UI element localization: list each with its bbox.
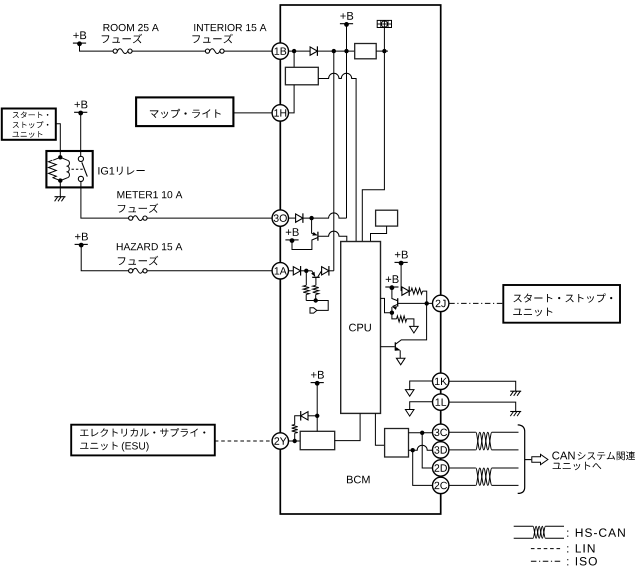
wire [293,51,295,67]
bracket (CAN group) [518,425,532,494]
map light box [136,97,233,126]
start-stop unit box [2,109,56,140]
wire [346,24,348,51]
label METER1 10 A [117,191,182,198]
connector 3C [433,424,449,440]
power +B (Q3 collector) [385,275,398,290]
wire [449,449,476,451]
start-stop unit box (right) [503,285,620,323]
label METER1 fuse (jp) [118,203,158,213]
fuse INTERIOR 15 A [205,49,224,54]
node (CAN-H) [420,431,424,435]
wire [492,467,519,469]
relay IG1 contact link (dashed) [72,168,85,170]
wire [147,270,272,272]
fuse ROOM 25 A [113,49,132,54]
ground (1K internal) [405,390,414,397]
wire (hop over rail) [303,213,347,218]
transistor Q4 [395,303,426,358]
connector 3O [272,210,288,226]
label CAN system (jp) [552,451,635,460]
label ROOM 25 A [104,24,159,31]
wire [329,270,334,272]
power +B (1B internal) [340,12,353,27]
resistor R1 [303,271,309,301]
transistor Q3 (2J) [392,288,398,313]
power +B (2Y clamp) [311,371,324,386]
wire [308,415,317,417]
diode D1 [310,46,317,56]
fuse METER1 10 A [129,216,148,221]
legend HS-CAN symbol [514,526,564,538]
label INTERIOR fuse (jp) [192,34,232,44]
diode D5 [402,286,409,296]
resistor R5 [292,416,301,441]
resistor R2 [313,277,319,300]
twisted pair (2D/2C) [476,468,492,485]
relay IG1 coil [49,155,70,183]
wire [449,381,516,391]
wire [56,124,61,158]
wire (CPU pin to Q3 emitter) [381,298,392,312]
wire [449,402,516,411]
node [332,49,336,53]
wire [409,432,433,434]
wire [317,50,354,52]
node [344,49,348,53]
wire [289,217,296,219]
wire [233,112,272,114]
wire [80,113,82,156]
power +B (2J pullup) [395,251,408,266]
wire (hop to 3D) [409,445,433,450]
wire [81,182,129,219]
electrical supply unit box [71,425,215,456]
power +B (Q1 drive) [285,228,298,243]
component box (2Y) [300,431,335,449]
wire [376,50,388,52]
label start-stop unit line2 (jp) [13,121,49,128]
wire (rail +B to 3O row) [346,51,348,218]
CAN transceiver box [385,429,409,458]
connector 1H [272,105,288,121]
connector 2D [433,460,449,476]
node (CAN-L) [411,448,415,452]
transistor Q1 (3O) [292,218,318,249]
wire (1B node to CPU) [362,51,384,241]
relay IG1 box [46,151,92,187]
wire [449,431,476,433]
label ESU line2 (jp) [80,442,148,452]
wire (Q1 base hop to CPU) [318,231,347,241]
label HAZARD fuse (jp) [118,256,158,266]
node (1A branch) [304,269,308,273]
ground (1L external) [510,412,521,417]
node (Q3 emitter) [390,311,394,315]
power +B (HAZARD fuse feed) [75,233,88,248]
label map light (jp) [150,109,221,119]
wire [375,413,384,445]
node [425,301,429,305]
label HAZARD 15 A [117,243,183,250]
wire [289,270,294,272]
wire [410,402,433,410]
wire [449,467,476,469]
wire [335,413,360,440]
wire [492,449,519,451]
wire [289,50,311,52]
wire [224,50,272,52]
wire [80,44,114,51]
wire [383,28,385,52]
wire [492,431,519,433]
wire (hops to CPU) [318,73,356,241]
node [309,216,313,220]
block arrow (to CAN units) [532,454,548,464]
ground (relay coil) [55,181,66,202]
CPU block [341,242,381,414]
connector 2Y [272,433,288,449]
label CAN system line2 (jp) [553,462,602,471]
wire [147,217,272,219]
wire [316,416,318,432]
twisted pair (3C/3D) [476,432,492,450]
node [314,298,318,302]
wire LIN (dashed) [215,440,272,442]
wire [492,484,519,486]
connector 1A [272,263,288,279]
diode D6 [301,411,308,421]
wire [413,450,433,485]
connector 3D [433,442,449,458]
transistor Q2 (1A) [311,271,322,278]
label start-stop unit line1 (jp) [13,112,49,119]
resistor R3 + ground [392,313,418,333]
label ROOM fuse (jp) [102,34,142,44]
label CPU [349,324,371,332]
wire (rail from 1B diode) [333,51,335,271]
label ESU line1 (jp) [80,428,205,437]
node (2Y branch) [293,439,297,443]
interior lamp symbol [377,20,391,27]
component box (1B relay) [285,67,318,85]
BCM body control module outline [280,5,440,514]
legend label ISO [567,557,597,566]
diode D3 [293,266,300,276]
wire [422,433,432,468]
node [315,414,319,418]
connector 1B [272,43,288,59]
legend label HS-CAN [567,528,625,537]
wire [301,270,312,272]
wire [81,245,129,271]
connector 2C [433,477,449,493]
connector 2J [433,295,449,311]
component box (mid right) [376,210,398,226]
wire [381,346,395,348]
wire [410,381,433,390]
legend ISO symbol [531,560,561,562]
component box (1B row) [355,44,377,59]
label start-stop line1 (jp) [513,293,612,302]
wire [400,263,402,291]
wire [449,484,476,486]
wire ISO (dash-dot) [449,302,503,304]
label INTERIOR 15 A [194,24,266,31]
wire [132,50,206,52]
power +B (IG1 relay feed) [74,101,87,116]
resistor R4 [409,288,427,303]
wire [306,301,328,311]
legend label LIN [567,544,594,552]
fuse HAZARD 15 A [129,268,148,273]
ground (1K external) [510,391,521,396]
connector 1K [433,373,449,389]
legend LIN symbol [531,548,561,550]
diode D2 [296,213,303,223]
wire [289,440,301,442]
connector 1L [433,394,449,410]
label BCM [347,476,370,484]
wire [272,85,294,113]
wire [371,226,387,241]
relay IG1 switch [78,156,87,181]
ground (1L internal) [405,410,414,417]
label start-stop unit line3 (jp) [13,131,43,138]
node [382,49,386,53]
diode D4 [322,266,329,276]
output tag (to other unit) [310,308,317,313]
wire (Q3 base to 2J) [398,302,433,304]
ground (Q4 emitter) [396,358,405,365]
wire [316,383,318,416]
power +B (ROOM fuse feed) [73,31,86,46]
label IG1 relay [98,167,144,175]
node (1B branch) [292,49,296,53]
label start-stop line2 (jp) [513,308,552,317]
